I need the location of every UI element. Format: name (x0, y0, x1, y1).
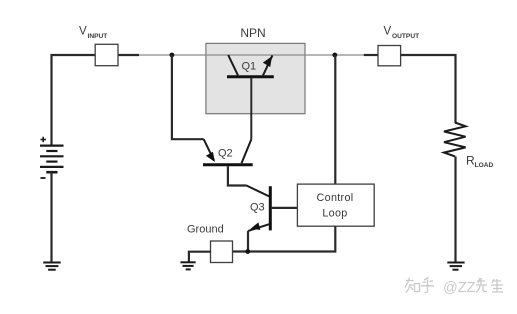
junction dot output rail (332, 53, 337, 58)
svg-text:OUTPUT: OUTPUT (392, 33, 419, 40)
transistor Q3 base bar (269, 186, 272, 230)
wire Q3 emitter down to ground rail (247, 231, 249, 252)
wire output rail down to control loop (334, 55, 336, 184)
wire battery to ground (50, 172, 52, 262)
wire R_LOAD to ground (454, 156, 456, 262)
transistor Q2 emitter lead (204, 139, 214, 160)
transistor Q3 base lead to control loop (272, 207, 298, 209)
svg-text:V: V (79, 26, 87, 38)
wire control loop down to ground rail (233, 226, 336, 251)
svg-text:@ZZ: @ZZ (443, 280, 476, 296)
transistor Q1 emitter arrow (263, 56, 272, 67)
wire Q2 base down to Q3 collector (228, 166, 247, 185)
svg-text:NPN: NPN (240, 26, 265, 40)
NPN shaded block (206, 43, 305, 113)
watermark xian sheng glyphs (476, 278, 503, 292)
battery plus sign (41, 137, 47, 142)
ground GND3 (447, 263, 464, 270)
svg-text:INPUT: INPUT (88, 33, 108, 40)
wire top thin rail V_INPUT to V_OUTPUT (138, 54, 365, 56)
label V_INPUT (79, 26, 107, 40)
junction dot input rail (170, 53, 175, 58)
wire junction down to Q2 emitter (172, 55, 204, 139)
wire V_OUTPUT to R_LOAD (401, 55, 456, 123)
transistor Q1 base bar (227, 75, 274, 78)
battery minus sign (41, 177, 46, 179)
transistor Q1 emitter lead (263, 55, 272, 75)
watermark zhihu text (405, 278, 434, 293)
svg-text:Q2: Q2 (218, 148, 233, 160)
svg-text:Control: Control (317, 192, 354, 204)
wire Q1 base down to Q2 (250, 78, 252, 139)
svg-text:Loop: Loop (322, 208, 347, 220)
transistor Q3 emitter arrow (250, 222, 260, 230)
transistor Q2 emitter arrow (206, 152, 215, 162)
control loop box (297, 184, 374, 226)
battery B1 (40, 146, 64, 173)
wire input corner and left drop (52, 55, 140, 146)
svg-text:Q3: Q3 (250, 202, 265, 214)
terminal box V_INPUT (95, 44, 118, 65)
svg-text:Q1: Q1 (242, 61, 257, 73)
wire ground box to ground symbol (189, 252, 211, 263)
svg-text:LOAD: LOAD (475, 162, 494, 169)
transistor Q2 base bar (203, 163, 253, 166)
svg-text:Ground: Ground (187, 224, 224, 236)
transistor Q3 emitter lead (248, 224, 269, 231)
ground GND2 (180, 262, 195, 269)
transistor Q3 collector lead (247, 186, 270, 197)
transistor Q1 collector lead (228, 55, 238, 75)
resistor R_LOAD zigzag (444, 123, 466, 157)
terminal box Ground (211, 241, 233, 263)
wire stub to V_OUTPUT box (364, 54, 378, 56)
ground GND1 (43, 263, 61, 270)
label Control Loop (317, 192, 354, 220)
svg-text:V: V (384, 26, 392, 38)
label V_OUTPUT (384, 26, 420, 40)
label R_LOAD (466, 154, 494, 170)
transistor Q2 collector lead (242, 139, 252, 163)
junction dot ground rail (245, 249, 250, 254)
terminal box V_OUTPUT (378, 46, 401, 66)
